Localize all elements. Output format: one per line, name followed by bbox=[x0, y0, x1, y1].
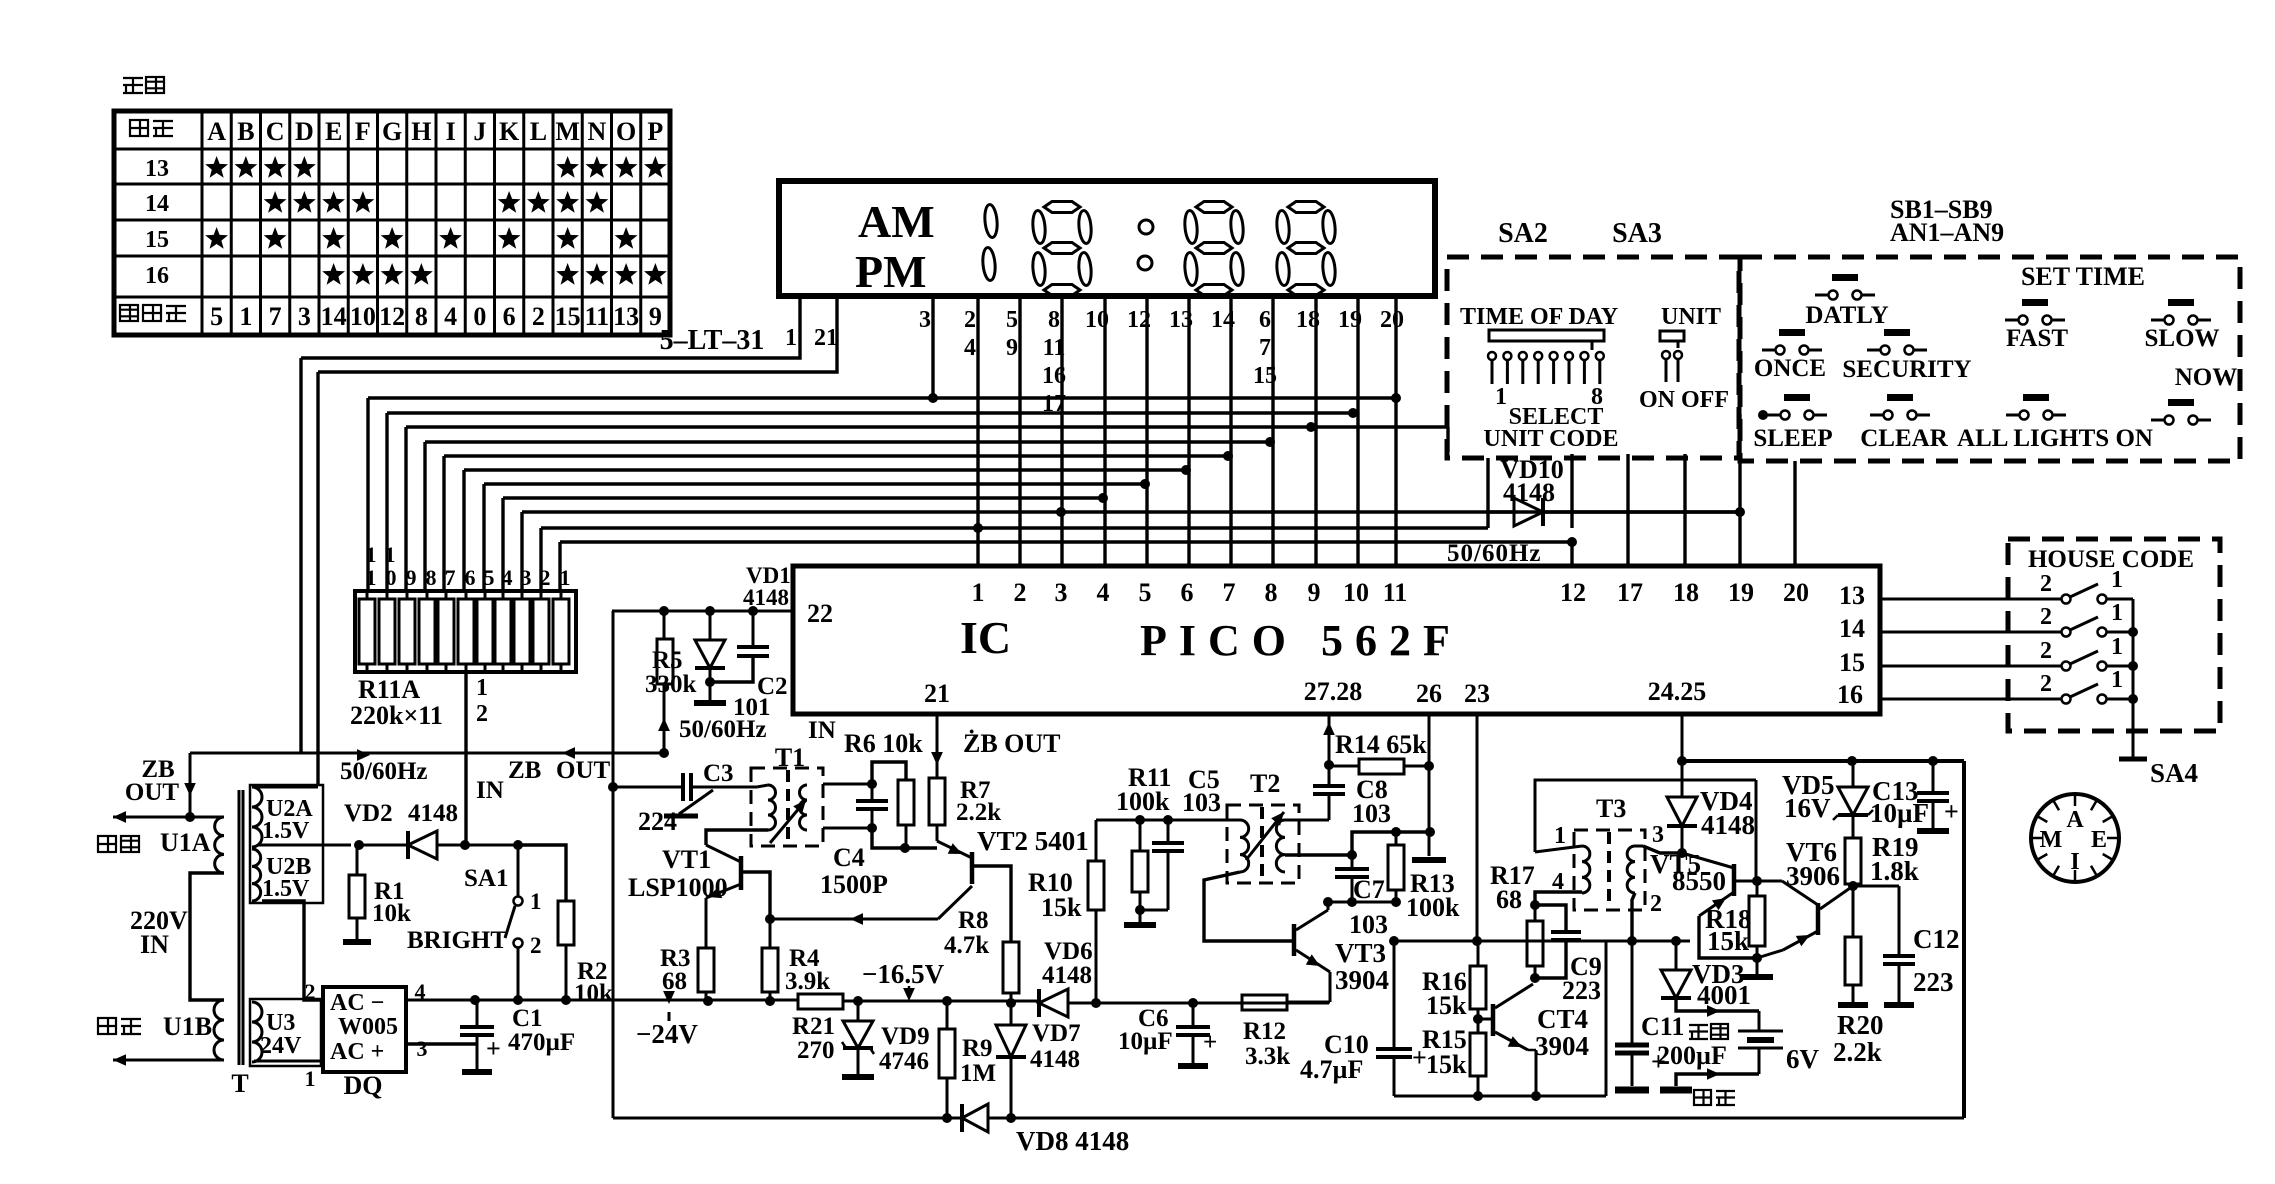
wire row 10 drop to R11A bbox=[539, 528, 542, 591]
wire T3 pin2 drop bbox=[1632, 893, 1635, 941]
wire IC pin 21 to R7 bbox=[936, 714, 939, 778]
svg-text:1: 1 bbox=[972, 578, 985, 607]
wire node line y=941 right section bbox=[1606, 940, 1690, 943]
svg-text:4746: 4746 bbox=[879, 1048, 929, 1075]
push button block SB1-SB9 / AN1-AN9 dashed box bbox=[1740, 257, 2240, 461]
label xi-hong (thin red) bbox=[1694, 1090, 1711, 1105]
svg-text:1: 1 bbox=[476, 675, 488, 701]
wire display pin 1 to ZB line bbox=[301, 296, 800, 358]
svg-text:1.5V: 1.5V bbox=[262, 818, 310, 844]
svg-text:10: 10 bbox=[350, 302, 376, 331]
diode VD7 4148 bbox=[1010, 1003, 1013, 1025]
svg-text:4148: 4148 bbox=[408, 800, 458, 827]
svg-text:15k: 15k bbox=[1426, 1050, 1467, 1079]
winding U3 24V bbox=[252, 1002, 262, 1062]
svg-text:15: 15 bbox=[145, 227, 169, 253]
svg-text:5: 5 bbox=[1139, 578, 1152, 607]
svg-text:ALL LIGHTS ON: ALL LIGHTS ON bbox=[1957, 425, 2153, 452]
winding T2 secondary bbox=[1276, 820, 1285, 872]
svg-text:12: 12 bbox=[1560, 578, 1586, 607]
svg-text:18: 18 bbox=[1673, 578, 1699, 607]
svg-text:D: D bbox=[295, 117, 314, 146]
resistor R11A element 8 bbox=[419, 599, 435, 664]
svg-text:PICO 562F: PICO 562F bbox=[1140, 616, 1462, 665]
svg-text:223: 223 bbox=[1562, 976, 1601, 1005]
svg-text:3904: 3904 bbox=[1335, 965, 1389, 995]
7-segment clock display module 5-LT-31 bbox=[779, 181, 1435, 296]
wire C7/R13 bottom to VT3 collector bbox=[1328, 901, 1396, 904]
svg-text:24V: 24V bbox=[260, 1033, 302, 1059]
svg-text:27.28: 27.28 bbox=[1304, 677, 1363, 706]
wire IC pin 20 riser bbox=[1793, 461, 1796, 566]
wire row 2 drop to R11A bbox=[385, 413, 388, 591]
svg-text:2: 2 bbox=[1650, 891, 1662, 917]
capacitor C12 223 bbox=[1898, 886, 1901, 956]
svg-text:10k: 10k bbox=[372, 900, 411, 927]
capacitor C8 103 bbox=[1328, 765, 1331, 786]
svg-text:U1B: U1B bbox=[163, 1012, 212, 1041]
svg-text:223: 223 bbox=[1913, 967, 1954, 997]
resistor R3 68 bbox=[698, 948, 714, 992]
resistor R14 65k (series) bbox=[1359, 759, 1404, 774]
wire riser to R18 top node bbox=[1755, 780, 1758, 881]
svg-text:8: 8 bbox=[1048, 307, 1060, 333]
ground SA4 bbox=[2119, 757, 2147, 762]
resistor R11A element 4 bbox=[495, 599, 511, 664]
svg-text:−24V: −24V bbox=[636, 1019, 698, 1049]
svg-text:2.2k: 2.2k bbox=[956, 799, 1001, 826]
svg-text:0: 0 bbox=[473, 302, 486, 331]
wire U2A top to display pin21 riser bbox=[255, 786, 318, 789]
resistor R10 15k bbox=[1095, 820, 1098, 861]
wire row 4 bbox=[425, 440, 1270, 443]
svg-text:4148: 4148 bbox=[743, 585, 789, 610]
svg-text:I: I bbox=[446, 117, 456, 146]
wire row 10 bbox=[541, 526, 1488, 529]
svg-text:330k: 330k bbox=[645, 671, 697, 698]
resistor R18 15k bbox=[1749, 896, 1765, 946]
zener VD9 4746 bbox=[853, 996, 863, 1006]
svg-text:VD8 4148: VD8 4148 bbox=[1016, 1126, 1129, 1156]
svg-text:B: B bbox=[237, 117, 254, 146]
svg-text:4.7k: 4.7k bbox=[944, 932, 989, 959]
resistor R7 2.2k bbox=[929, 778, 945, 825]
svg-text:U1A: U1A bbox=[160, 828, 211, 857]
svg-text:T1: T1 bbox=[775, 743, 805, 772]
wire row 5 drop to R11A bbox=[442, 456, 445, 591]
svg-text:7: 7 bbox=[445, 565, 456, 590]
svg-text:R6 10k: R6 10k bbox=[844, 729, 923, 758]
svg-text:16: 16 bbox=[145, 263, 169, 289]
resistor R11A element 2 bbox=[533, 599, 549, 664]
svg-text:8: 8 bbox=[1265, 578, 1278, 607]
svg-text:8: 8 bbox=[415, 302, 428, 331]
label xi-hei (thin black) bbox=[1689, 1025, 1708, 1039]
digit 2 (shows 8) bbox=[1044, 202, 1080, 213]
wire U2B bottom to DQ pin2 bbox=[262, 901, 323, 1000]
wire IC pin 26 with ground bbox=[1428, 714, 1431, 856]
svg-text:C1: C1 bbox=[512, 1005, 543, 1032]
svg-text:VD7: VD7 bbox=[1032, 1020, 1081, 1047]
svg-text:11: 11 bbox=[585, 302, 610, 331]
switch SA3 unit on/off bbox=[1660, 331, 1684, 341]
wire row 8 bbox=[503, 496, 1103, 499]
svg-text:270: 270 bbox=[797, 1037, 835, 1064]
wire row 8 drop to R11A bbox=[501, 498, 504, 591]
winding U1A primary bbox=[215, 817, 224, 873]
svg-text:24.25: 24.25 bbox=[1648, 677, 1707, 706]
T2 core bbox=[1260, 807, 1264, 880]
svg-text:0: 0 bbox=[386, 565, 397, 590]
svg-text:SLEEP: SLEEP bbox=[1753, 425, 1832, 452]
svg-text:2: 2 bbox=[2040, 571, 2052, 597]
wire row 3 bbox=[406, 425, 1448, 428]
R11A common pin wire 1/2 bbox=[464, 672, 467, 845]
svg-text:5: 5 bbox=[1006, 307, 1018, 333]
wire T2 primary bottom to VT3 base bbox=[1204, 872, 1294, 941]
wire R17 top to T3 pin 4 bbox=[1535, 892, 1582, 905]
svg-text:R5: R5 bbox=[652, 647, 683, 674]
digit 4 (shows 8) bbox=[1288, 202, 1324, 213]
svg-text:W005: W005 bbox=[338, 1014, 398, 1040]
svg-text:2: 2 bbox=[540, 565, 551, 590]
button SLOW bbox=[2168, 299, 2194, 306]
resistor R6 10k bbox=[872, 762, 906, 784]
svg-text:14: 14 bbox=[321, 302, 347, 331]
svg-text:R11A: R11A bbox=[358, 675, 420, 704]
svg-text:10k: 10k bbox=[574, 980, 613, 1007]
ground stub near C3 bbox=[679, 790, 713, 814]
wire row 7 bbox=[484, 482, 1145, 485]
svg-text:3: 3 bbox=[1652, 822, 1664, 848]
svg-text:10µF: 10µF bbox=[1870, 798, 1929, 828]
svg-text:K: K bbox=[499, 117, 520, 146]
winding T2 primary bbox=[1240, 820, 1249, 872]
secondary windings U2A/U2B box bbox=[250, 785, 323, 903]
svg-text:ONCE: ONCE bbox=[1754, 355, 1826, 382]
svg-text:12: 12 bbox=[379, 302, 405, 331]
diode VD8 4148 on bottom frame bbox=[962, 1104, 988, 1132]
wire display pin drops to IC pins 1-11 bbox=[976, 296, 979, 566]
digit 3 (shows 8) bbox=[1196, 202, 1232, 213]
svg-text:1: 1 bbox=[239, 302, 252, 331]
svg-text:I: I bbox=[2070, 849, 2079, 875]
button NOW bbox=[2168, 399, 2194, 406]
svg-text:DQ: DQ bbox=[344, 1071, 383, 1100]
wire T3 pin1 lead bbox=[1535, 846, 1582, 852]
wire U1B bottom lead bbox=[113, 1059, 224, 1062]
svg-text:2: 2 bbox=[2040, 604, 2052, 630]
svg-text:1: 1 bbox=[385, 542, 396, 567]
svg-text:3: 3 bbox=[1055, 578, 1068, 607]
svg-text:AC +: AC + bbox=[330, 1039, 384, 1065]
svg-text:+: + bbox=[1944, 797, 1959, 826]
svg-text:VT2 5401: VT2 5401 bbox=[977, 826, 1089, 856]
wire row 9 drop to R11A bbox=[520, 512, 523, 591]
svg-text:3: 3 bbox=[521, 565, 532, 590]
capacitor C11 200uF bbox=[1627, 936, 1637, 946]
svg-text:13: 13 bbox=[145, 156, 169, 182]
wire row3 riser to SA2 box corner bbox=[1446, 427, 1449, 452]
svg-text:P: P bbox=[647, 117, 663, 146]
button ALL LIGHTS ON bbox=[2023, 394, 2049, 401]
svg-text:4: 4 bbox=[1097, 578, 1110, 607]
button CLEAR bbox=[1887, 394, 1913, 401]
capacitor C13 10uF bbox=[1932, 761, 1935, 792]
label cu-hei (thick black lead) bbox=[98, 1018, 116, 1034]
svg-text:SA1: SA1 bbox=[464, 865, 508, 892]
wire bottom frame bbox=[613, 1117, 962, 1120]
wire display pin 20 jog to IC pin 11 bbox=[1396, 296, 1420, 566]
button FAST bbox=[2022, 299, 2048, 306]
svg-text:SET TIME: SET TIME bbox=[2021, 262, 2145, 291]
wire row 7 drop to R11A bbox=[482, 484, 485, 591]
svg-text:ŻB OUT: ŻB OUT bbox=[963, 729, 1061, 758]
resistor R20 2.2k bbox=[1852, 886, 1855, 937]
svg-text:4: 4 bbox=[964, 335, 976, 361]
svg-text:1: 1 bbox=[2111, 567, 2123, 593]
svg-text:IC: IC bbox=[960, 612, 1011, 663]
resistor R11A element 10 bbox=[379, 599, 395, 664]
svg-text:NOW: NOW bbox=[2175, 364, 2238, 391]
svg-text:SA4: SA4 bbox=[2150, 758, 2198, 788]
diode VD3 4001 bbox=[1671, 936, 1681, 946]
svg-text:PM: PM bbox=[855, 246, 927, 297]
svg-text:E: E bbox=[325, 117, 342, 146]
wire row 11 drop to R11A bbox=[558, 542, 561, 591]
wire output block top-left feed bbox=[1535, 780, 1756, 852]
svg-text:13: 13 bbox=[613, 302, 639, 331]
svg-text:SLOW: SLOW bbox=[2144, 325, 2219, 352]
switch block SA2 SA3 dashed box bbox=[1447, 257, 1739, 458]
svg-text:10: 10 bbox=[1343, 578, 1369, 607]
resistor R21 270 (in series) bbox=[798, 994, 843, 1009]
svg-text:OUT: OUT bbox=[125, 779, 180, 806]
svg-text:100k: 100k bbox=[1116, 787, 1170, 816]
svg-text:R8: R8 bbox=[958, 907, 989, 934]
wire R10/R11/C5/T2 top line bbox=[1096, 819, 1240, 822]
svg-text:15: 15 bbox=[1839, 648, 1865, 677]
svg-text:2: 2 bbox=[532, 302, 545, 331]
capacitor C10 4.7uF bbox=[1393, 941, 1396, 1049]
winding U2A bbox=[252, 787, 262, 847]
svg-text:C7: C7 bbox=[1353, 875, 1385, 904]
svg-text:3.9k: 3.9k bbox=[785, 968, 830, 995]
capacitor C3 224 bbox=[608, 782, 618, 792]
svg-text:A: A bbox=[2066, 807, 2084, 833]
svg-text:4148: 4148 bbox=[1030, 1046, 1080, 1073]
svg-text:4148: 4148 bbox=[1503, 478, 1555, 507]
svg-text:26: 26 bbox=[1416, 679, 1442, 708]
capacitor C6 10uF bbox=[1188, 998, 1198, 1008]
svg-text:5: 5 bbox=[210, 302, 223, 331]
house code dial A-P rotary indicator bbox=[2031, 794, 2119, 882]
svg-text:6: 6 bbox=[1181, 578, 1194, 607]
wires IC pins 13-16 to house code switches bbox=[1880, 598, 2062, 601]
winding T3 secondary bbox=[1627, 846, 1635, 893]
svg-text:11: 11 bbox=[1383, 578, 1408, 607]
svg-text:C3: C3 bbox=[703, 760, 734, 787]
wire -24V rail bbox=[475, 999, 798, 1002]
svg-text:23: 23 bbox=[1464, 679, 1490, 708]
ground R18/VT5 emitter bbox=[1756, 958, 1759, 974]
svg-text:UNIT CODE: UNIT CODE bbox=[1484, 426, 1619, 452]
svg-text:7: 7 bbox=[1223, 578, 1236, 607]
svg-text:AC −: AC − bbox=[330, 990, 384, 1016]
svg-text:3904: 3904 bbox=[1535, 1031, 1589, 1061]
svg-text:3: 3 bbox=[298, 302, 311, 331]
svg-text:1: 1 bbox=[366, 565, 377, 590]
svg-text:8550: 8550 bbox=[1672, 866, 1726, 896]
svg-text:4: 4 bbox=[1552, 869, 1564, 895]
wire IC pin 27.28 down bbox=[1328, 714, 1331, 765]
resistor R16 15k bbox=[1477, 941, 1480, 966]
wire IC pin 22 line bbox=[612, 610, 793, 613]
svg-text:103: 103 bbox=[1182, 788, 1221, 817]
svg-text:SA3: SA3 bbox=[1612, 218, 1662, 249]
svg-text:C4: C4 bbox=[833, 843, 865, 872]
svg-text:1: 1 bbox=[2111, 600, 2123, 626]
resistor R11A element 5 bbox=[477, 599, 493, 664]
resistor network R11A 220k x 11 bbox=[355, 591, 576, 672]
resistor R11A element 3 bbox=[514, 599, 530, 664]
svg-text:4001: 4001 bbox=[1697, 980, 1751, 1010]
resistor R11A element 1 bbox=[553, 599, 569, 664]
svg-text:6V: 6V bbox=[1786, 1044, 1820, 1074]
house code block dashed box bbox=[2008, 539, 2220, 731]
svg-text:N: N bbox=[587, 117, 606, 146]
svg-text:1: 1 bbox=[1554, 823, 1566, 849]
svg-text:AM: AM bbox=[858, 196, 935, 247]
wire VT2 base feedback line bbox=[770, 918, 938, 921]
svg-text:VD9: VD9 bbox=[881, 1023, 930, 1050]
transistor CT4 emitter rail region / pin 23 drop bbox=[1476, 714, 1479, 941]
svg-text:1500P: 1500P bbox=[820, 870, 888, 899]
table: appendix star chart (附表) bbox=[123, 78, 143, 93]
svg-text:16: 16 bbox=[1837, 680, 1863, 709]
svg-text:2: 2 bbox=[530, 933, 542, 958]
svg-text:1: 1 bbox=[785, 325, 797, 351]
svg-text:R14 65k: R14 65k bbox=[1335, 730, 1427, 759]
wire T3 pin4 lead bbox=[1581, 892, 1584, 893]
svg-text:ON OFF: ON OFF bbox=[1639, 387, 1729, 413]
svg-text:BRIGHT: BRIGHT bbox=[407, 927, 507, 954]
svg-text:4.7µF: 4.7µF bbox=[1300, 1055, 1363, 1084]
svg-text:5–LT–31: 5–LT–31 bbox=[660, 325, 765, 356]
svg-text:UNIT: UNIT bbox=[1661, 304, 1721, 330]
transformer T core bbox=[238, 790, 241, 1065]
wire U1A-U1B link bbox=[190, 873, 224, 1000]
resistor R5 330k bbox=[659, 606, 669, 616]
wire ZB OUT riser bbox=[189, 753, 192, 817]
wire display pin 3 drop bbox=[931, 296, 934, 398]
wire T1 primary bottom to VT1 bbox=[706, 830, 768, 845]
svg-text:T3: T3 bbox=[1596, 794, 1626, 823]
wire row 6 drop to R11A bbox=[462, 470, 465, 591]
svg-text:ZB: ZB bbox=[508, 757, 541, 784]
svg-text:−16.5V: −16.5V bbox=[862, 959, 945, 989]
T1 tuning arrow bbox=[770, 800, 806, 843]
svg-text:LSP1000: LSP1000 bbox=[628, 873, 728, 902]
wire U2A/U2B tap to R1/VD2 line bbox=[258, 844, 351, 847]
resistor R13 100k bbox=[1391, 827, 1401, 837]
wire row 9 bbox=[522, 510, 1740, 513]
svg-text:14: 14 bbox=[1839, 614, 1865, 643]
svg-text:103: 103 bbox=[1352, 799, 1391, 828]
svg-text:68: 68 bbox=[662, 968, 687, 995]
colon bbox=[1139, 220, 1153, 234]
svg-text:15: 15 bbox=[555, 302, 581, 331]
svg-text:10µF: 10µF bbox=[1118, 1028, 1173, 1055]
junction dots on matrix bbox=[928, 393, 938, 403]
svg-text:DATLY: DATLY bbox=[1805, 302, 1888, 329]
svg-text:3.3k: 3.3k bbox=[1245, 1043, 1290, 1070]
svg-text:1M: 1M bbox=[960, 1060, 996, 1087]
svg-text:9: 9 bbox=[1006, 335, 1018, 361]
resistor R11A element 11 bbox=[359, 599, 375, 664]
svg-text:1.8k: 1.8k bbox=[1870, 856, 1919, 886]
button SLEEP bbox=[1784, 394, 1810, 401]
wire bus left riser pin1 bbox=[299, 358, 302, 753]
capacitor C2 101 bbox=[748, 606, 758, 616]
svg-text:A: A bbox=[207, 117, 226, 146]
wire row 4 drop to R11A bbox=[423, 442, 426, 591]
capacitor C4 1500P bbox=[856, 799, 888, 803]
wire VT6 collector node to C12 bbox=[1853, 885, 1899, 888]
winding T1 primary bbox=[768, 785, 776, 830]
resistor R11 100k bbox=[1135, 815, 1145, 825]
svg-text:T2: T2 bbox=[1250, 769, 1280, 798]
svg-text:7: 7 bbox=[1259, 335, 1271, 361]
svg-text:200µF: 200µF bbox=[1657, 1041, 1727, 1070]
svg-text:M: M bbox=[2040, 827, 2063, 853]
svg-text:IN: IN bbox=[808, 717, 836, 744]
svg-text:SECURITY: SECURITY bbox=[1842, 356, 1971, 383]
svg-text:T: T bbox=[231, 1069, 248, 1098]
winding T3 primary bbox=[1582, 846, 1590, 893]
winding T1 secondary bbox=[800, 785, 807, 830]
svg-text:SA2: SA2 bbox=[1498, 218, 1548, 249]
svg-text:2: 2 bbox=[1014, 578, 1027, 607]
wire display pin 21 to U2A bbox=[318, 296, 837, 372]
wire IC pin 24.25 drop bbox=[1681, 714, 1684, 761]
resistor R17 68 bbox=[1530, 973, 1540, 983]
wire U3 bottom to DQ pin1 bbox=[254, 1060, 323, 1063]
svg-text:19: 19 bbox=[1728, 578, 1754, 607]
wire bottom of C10/R15 rail bbox=[1394, 1095, 1606, 1098]
wire IC pin 19 riser to SLEEP bbox=[1738, 414, 1741, 566]
ground R1 bbox=[356, 918, 359, 940]
svg-text:F: F bbox=[355, 117, 371, 146]
wire C10/R16 top line bbox=[1394, 940, 1606, 943]
wire bus left riser pin21 bbox=[316, 372, 319, 786]
svg-text:CT4: CT4 bbox=[1537, 1004, 1588, 1034]
wire row 1 bbox=[368, 396, 1396, 399]
button DAILY bbox=[1832, 274, 1858, 281]
svg-text:20: 20 bbox=[1783, 578, 1809, 607]
svg-text:20: 20 bbox=[1380, 307, 1404, 333]
svg-text:21: 21 bbox=[814, 325, 838, 351]
svg-text:IN: IN bbox=[476, 777, 504, 804]
svg-text:6: 6 bbox=[503, 302, 516, 331]
switch SA2 slider (select unit code 1-8) bbox=[1489, 330, 1604, 341]
svg-text:AN1–AN9: AN1–AN9 bbox=[1890, 218, 2004, 247]
wire IC pin 18 riser bbox=[1683, 454, 1686, 566]
svg-text:6: 6 bbox=[1259, 307, 1271, 333]
resistor R12 3.3k (series) bbox=[1242, 995, 1287, 1010]
svg-text:9: 9 bbox=[1308, 578, 1321, 607]
resistor R11A element 6 bbox=[458, 599, 474, 664]
